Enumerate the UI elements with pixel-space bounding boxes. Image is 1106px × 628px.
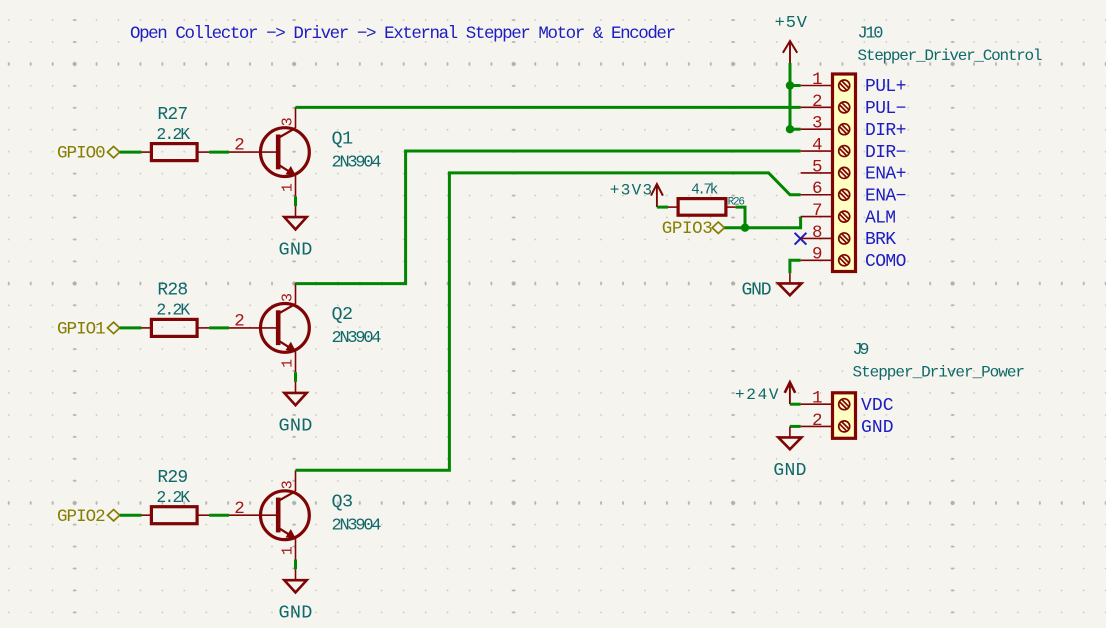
wire Q2 emitter to GND [294, 372, 297, 382]
svg-text:2.2K: 2.2K [156, 125, 190, 144]
ground symbol below Q3 [279, 569, 313, 623]
J10 pin 5 ENA+ [801, 157, 907, 184]
svg-text:Stepper_Driver_Power: Stepper_Driver_Power [853, 364, 1026, 382]
svg-text:PUL+: PUL+ [865, 77, 906, 97]
svg-text:6: 6 [812, 179, 823, 199]
svg-text:2: 2 [234, 499, 245, 519]
svg-text:GND: GND [773, 461, 806, 481]
hierarchical label GPIO0 [57, 144, 120, 164]
svg-text:ALM: ALM [865, 208, 896, 228]
hierarchical label GPIO2 [57, 507, 120, 527]
junction at pin 3 [786, 125, 794, 133]
svg-text:+24V: +24V [735, 386, 779, 404]
wire R27 to Q1 base [209, 151, 229, 154]
wire R28 to Q2 base [209, 326, 229, 329]
svg-text:3: 3 [279, 480, 296, 489]
svg-text:J10: J10 [858, 25, 884, 44]
resistor R28 2.2K [142, 281, 210, 337]
svg-text:2.2K: 2.2K [156, 301, 190, 320]
svg-text:7: 7 [812, 201, 823, 221]
connector J10 Stepper_Driver_Control [833, 25, 1043, 272]
svg-text:+3V3: +3V3 [610, 182, 652, 200]
transistor Q2 2N3904 [229, 283, 382, 372]
svg-text:Open Collector −> Driver −> Ex: Open Collector −> Driver −> External Ste… [130, 24, 676, 44]
J10 pin 6 ENA− [801, 179, 907, 206]
svg-text:BRK: BRK [865, 230, 896, 250]
wire junction to pin 1 [790, 84, 801, 87]
ground symbol below Q1 [279, 206, 313, 260]
wire +24V to J9 pin 1 [790, 403, 801, 406]
junction GPIO3/R26 node [741, 224, 749, 232]
svg-text:Q3: Q3 [332, 491, 354, 512]
ground symbol below J10 [742, 273, 802, 300]
svg-text:2N3904: 2N3904 [332, 516, 382, 535]
wire R29 to Q3 base [209, 514, 229, 517]
J10 pin 3 DIR+ [801, 114, 907, 141]
svg-text:Stepper_Driver_Control: Stepper_Driver_Control [858, 47, 1043, 65]
resistor R27 2.2K [142, 105, 210, 161]
svg-text:2: 2 [812, 92, 823, 112]
svg-text:Q1: Q1 [332, 128, 354, 149]
svg-text:ENA−: ENA− [865, 186, 906, 206]
wire Q3 emitter to GND [294, 560, 297, 570]
wire J10 pin 9 to GND [790, 260, 801, 273]
transistor Q1 2N3904 [229, 107, 382, 196]
wire +3V3 to R26 [657, 206, 668, 209]
wire GPIO1 to R28 [120, 326, 142, 329]
J10 pin 8 BRK [801, 223, 897, 250]
J10 pin 9 COMO [801, 245, 907, 272]
J9 pin 1 VDC [801, 389, 894, 416]
svg-text:3: 3 [812, 114, 823, 134]
resistor R29 2.2K [142, 468, 210, 524]
wire junction to pin 3 [790, 128, 801, 131]
svg-text:2: 2 [812, 411, 823, 431]
svg-text:9: 9 [812, 245, 823, 265]
connector J9 Stepper_Driver_Power [833, 341, 1026, 438]
wire GPIO0 to R27 [120, 151, 142, 154]
svg-text:GND: GND [742, 281, 772, 301]
svg-text:3: 3 [279, 293, 296, 302]
wire GPIO3 to J10 pin 7 (ALM) [724, 217, 800, 228]
svg-text:DIR+: DIR+ [865, 121, 906, 141]
svg-text:+5V: +5V [775, 14, 808, 33]
J10 pin 1 PUL+ [801, 70, 907, 97]
svg-text:VDC: VDC [861, 396, 894, 416]
svg-text:COMO: COMO [865, 252, 906, 272]
junction at pin 1 [786, 81, 794, 89]
svg-text:1: 1 [279, 359, 296, 368]
J9 pin 2 GND [801, 411, 894, 438]
resistor R26 4.7k [668, 182, 745, 215]
transistor Q3 2N3904 [229, 470, 382, 559]
J10 pin 4 DIR− [801, 135, 907, 162]
svg-text:3: 3 [279, 117, 296, 126]
hierarchical label GPIO1 [57, 320, 120, 340]
svg-text:R29: R29 [157, 468, 188, 488]
hierarchical label GPIO3 [662, 219, 725, 239]
svg-text:GND: GND [861, 418, 894, 438]
svg-text:J9: J9 [853, 341, 870, 360]
svg-text:2.2K: 2.2K [156, 488, 190, 507]
svg-text:1: 1 [279, 546, 296, 555]
svg-text:PUL−: PUL− [865, 99, 906, 119]
svg-text:GPIO3: GPIO3 [662, 219, 713, 239]
wire Q2 collector to J10 pin 4 (DIR-) [296, 151, 801, 284]
svg-text:GND: GND [279, 240, 313, 261]
wire J9 pin 2 to GND [790, 425, 801, 428]
wire +5V to J10 pins 1,3 [789, 63, 792, 129]
svg-text:4: 4 [812, 135, 823, 155]
power symbol +5V [775, 14, 808, 63]
svg-text:ENA+: ENA+ [865, 165, 906, 185]
svg-text:2N3904: 2N3904 [332, 329, 382, 348]
J10 pin 2 PUL− [801, 92, 907, 119]
svg-text:Q2: Q2 [332, 304, 354, 325]
ground symbol below Q2 [279, 382, 313, 436]
svg-text:GPIO1: GPIO1 [57, 320, 106, 340]
power symbol +24V [735, 382, 795, 404]
svg-text:2N3904: 2N3904 [332, 153, 382, 172]
svg-text:4.7k: 4.7k [691, 182, 718, 198]
svg-text:DIR−: DIR− [865, 143, 906, 163]
wire Q1 emitter to GND [294, 196, 297, 206]
svg-text:1: 1 [812, 389, 823, 409]
no-connect X on pin 8 (BRK) [795, 233, 807, 245]
wire GPIO2 to R29 [120, 514, 142, 517]
svg-text:2: 2 [234, 136, 245, 156]
svg-text:R27: R27 [157, 105, 188, 125]
svg-text:1: 1 [812, 70, 823, 90]
svg-text:GPIO0: GPIO0 [57, 144, 106, 164]
wire Q3 collector to J10 pin 6 (ENA-) [296, 173, 801, 470]
power symbol +3V3 [610, 182, 663, 208]
svg-text:5: 5 [812, 157, 823, 177]
svg-text:GND: GND [279, 603, 313, 624]
svg-text:2: 2 [234, 312, 245, 332]
svg-text:GPIO2: GPIO2 [57, 507, 106, 527]
svg-text:GND: GND [279, 415, 313, 436]
ground symbol below J9 [773, 426, 806, 481]
svg-text:1: 1 [279, 183, 296, 192]
svg-text:8: 8 [812, 223, 823, 243]
J10 pin 7 ALM [801, 201, 896, 228]
svg-text:R28: R28 [157, 281, 188, 301]
wire R26 to junction [736, 207, 745, 228]
wire Q1 collector to J10 pin 2 (PUL-) [296, 106, 801, 109]
